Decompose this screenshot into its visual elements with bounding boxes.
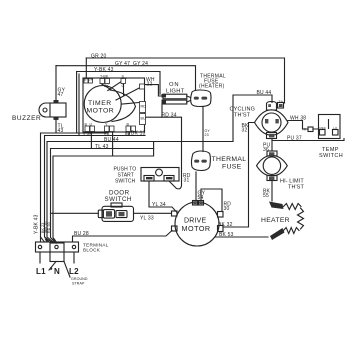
svg-text:BU 28: BU 28 [74, 231, 89, 237]
svg-text:BU 44: BU 44 [257, 90, 272, 96]
svg-text:STRAP: STRAP [72, 282, 85, 286]
svg-text:THERMAL: THERMAL [212, 156, 247, 163]
svg-text:55: 55 [263, 193, 269, 199]
svg-text:YL 33: YL 33 [140, 216, 154, 222]
svg-text:SWITCH: SWITCH [319, 153, 343, 159]
svg-text:LIGHT: LIGHT [166, 89, 185, 95]
svg-text:23: 23 [205, 133, 209, 137]
svg-text:Y-BK 43: Y-BK 43 [94, 67, 114, 73]
svg-text:30: 30 [224, 206, 230, 212]
svg-text:SWITCH: SWITCH [115, 179, 136, 185]
svg-text:BU: BU [125, 132, 130, 136]
svg-text:32: 32 [242, 128, 248, 134]
svg-text:N: N [54, 267, 60, 276]
svg-text:SWITCH: SWITCH [105, 196, 132, 203]
svg-text:TL 43: TL 43 [95, 144, 109, 150]
svg-text:FUSE: FUSE [222, 163, 242, 170]
svg-text:YL 34: YL 34 [152, 202, 166, 208]
svg-text:GR 20: GR 20 [91, 54, 106, 60]
svg-text:31: 31 [184, 178, 190, 184]
svg-text:Y-BK 43: Y-BK 43 [34, 214, 40, 234]
svg-text:MOTOR: MOTOR [87, 108, 115, 115]
svg-text:22: 22 [147, 82, 153, 88]
svg-text:PU 37: PU 37 [287, 136, 302, 142]
svg-text:B-GR: B-GR [84, 78, 94, 82]
svg-text:MOTOR: MOTOR [182, 224, 211, 233]
svg-text:L1: L1 [36, 267, 46, 276]
svg-text:T-BK: T-BK [100, 75, 109, 79]
svg-text:TH'ST: TH'ST [234, 113, 251, 119]
svg-text:WH 38: WH 38 [290, 116, 306, 122]
svg-text:MED: MED [320, 126, 326, 130]
svg-text:43: 43 [58, 128, 64, 134]
svg-text:BK 53: BK 53 [219, 232, 234, 238]
svg-text:BU 44: BU 44 [104, 137, 119, 143]
svg-text:TIMER: TIMER [88, 100, 112, 107]
svg-text:20: 20 [279, 104, 283, 108]
svg-text:36: 36 [263, 147, 269, 153]
svg-text:RD: RD [141, 105, 147, 109]
svg-text:ON: ON [169, 82, 180, 88]
svg-text:HEATER: HEATER [261, 217, 290, 224]
svg-text:47: 47 [58, 92, 64, 98]
svg-text:V GR: V GR [83, 132, 92, 136]
svg-text:TH'ST: TH'ST [288, 185, 304, 191]
svg-text:54: 54 [198, 195, 204, 201]
svg-text:RD: RD [104, 132, 110, 136]
svg-text:RD 30: RD 30 [47, 222, 51, 233]
svg-text:BK: BK [104, 84, 109, 88]
svg-text:BK 32: BK 32 [218, 222, 233, 228]
svg-text:GROUND: GROUND [71, 277, 88, 281]
svg-text:HI: HI [303, 128, 307, 132]
svg-text:GY 24: GY 24 [133, 61, 148, 67]
svg-text:BLOCK: BLOCK [83, 248, 101, 253]
svg-text:GY 47: GY 47 [115, 61, 130, 67]
svg-text:BUZZER: BUZZER [12, 115, 41, 122]
svg-text:G: G [122, 84, 125, 88]
svg-text:U: U [90, 123, 93, 127]
svg-text:(HEATER): (HEATER) [199, 84, 225, 90]
svg-text:BU: BU [141, 117, 146, 121]
svg-text:BK 13: BK 13 [131, 130, 146, 136]
svg-text:L2: L2 [69, 267, 79, 276]
svg-text:RD 34: RD 34 [162, 113, 177, 119]
